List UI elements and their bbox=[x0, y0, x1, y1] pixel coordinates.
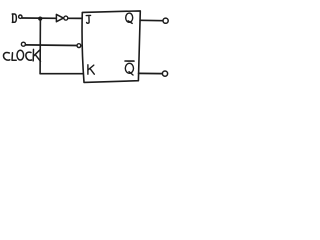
flip-flop U2 box bbox=[82, 11, 140, 83]
label D bbox=[12, 14, 16, 23]
clock bubble on box bbox=[77, 44, 81, 48]
wire bottom to K bbox=[40, 73, 84, 75]
pin label J bbox=[86, 15, 90, 23]
pin label K bbox=[88, 65, 94, 74]
terminal Q-bar output bbox=[162, 71, 167, 76]
inverter bubble bbox=[64, 16, 68, 20]
wire D to inverter bbox=[22, 17, 56, 19]
terminal Q output bbox=[163, 18, 168, 23]
wire Q-bar output bbox=[139, 72, 163, 74]
wire CLOCK to box bbox=[26, 44, 78, 47]
inverter U1 bbox=[56, 14, 63, 21]
terminal CLOCK input bbox=[21, 42, 25, 46]
wire inverter to J bbox=[68, 17, 83, 19]
wire junction down bbox=[39, 19, 41, 74]
wire Q output bbox=[140, 19, 163, 21]
terminal D input bbox=[19, 15, 22, 18]
pin label Q bbox=[126, 13, 133, 23]
pin label Q-bar bbox=[125, 61, 134, 75]
junction node dot bbox=[38, 16, 42, 20]
label CLOCK bbox=[3, 49, 40, 61]
